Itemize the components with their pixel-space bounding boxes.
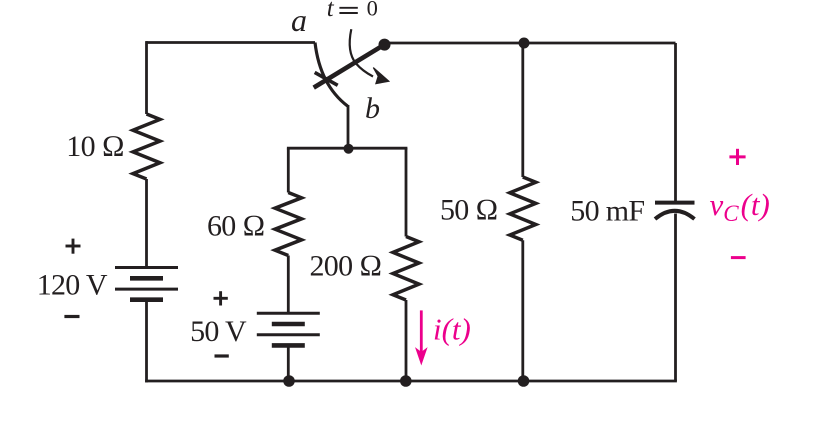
svg-text:vC(t): vC(t) [710,187,770,226]
svg-text:t: t [327,0,335,22]
svg-text:0: 0 [367,0,378,21]
svg-text:i(t): i(t) [433,312,471,347]
svg-text:10 Ω: 10 Ω [66,130,124,163]
svg-text:50 Ω: 50 Ω [440,194,498,227]
svg-text:60 Ω: 60 Ω [207,210,265,243]
svg-text:b: b [365,92,380,125]
svg-text:120 V: 120 V [37,269,108,302]
svg-text:a: a [291,2,307,38]
svg-text:50 V: 50 V [190,315,247,348]
svg-text:200 Ω: 200 Ω [310,250,382,283]
svg-text:50 mF: 50 mF [570,195,644,228]
